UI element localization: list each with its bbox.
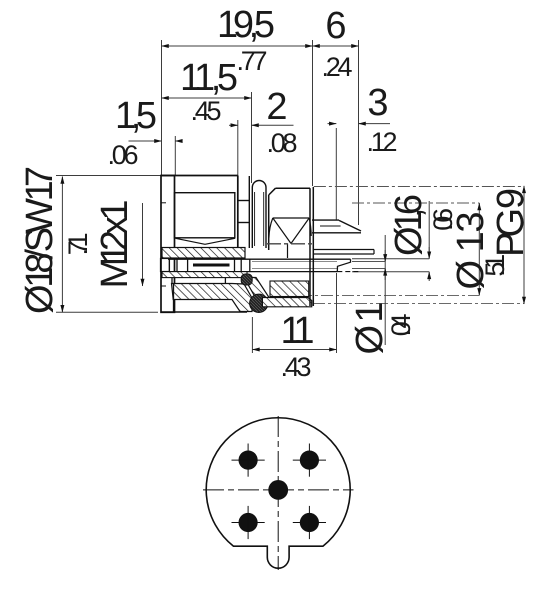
- contact left cap: [161, 259, 170, 272]
- nut top edge: [161, 175, 238, 177]
- panel nut hatch band: [262, 298, 311, 307]
- hex lower hatch: [270, 281, 309, 297]
- pin 2: [293, 444, 326, 477]
- dim line dia1: [384, 235, 386, 345]
- svg-text:3: 3: [367, 82, 388, 124]
- cavity V chamfer right: [205, 238, 235, 244]
- svg-text:M12 x 1: M12 x 1: [94, 200, 136, 289]
- dim line 1.5 outside arrows: [129, 140, 162, 142]
- pin 1: [232, 444, 265, 477]
- dim line dia13: [478, 203, 480, 295]
- svg-text:.08: .08: [267, 128, 298, 158]
- svg-text:.12: .12: [367, 127, 398, 157]
- svg-text:6: 6: [325, 5, 346, 47]
- pin 5 center: [268, 480, 288, 500]
- centerline horizontal: [203, 489, 354, 491]
- nut right face: [237, 176, 239, 251]
- lower pin body: [168, 259, 359, 271]
- pin slot black bar: [193, 264, 230, 267]
- svg-text:Ø 18/ SW 17: Ø 18/ SW 17: [19, 166, 61, 314]
- svg-text:2: 2: [266, 86, 287, 128]
- insert hatch bottom: [162, 272, 247, 278]
- pin 3: [232, 506, 265, 539]
- pin mid line: [252, 260, 337, 262]
- extension line step 1.5: [174, 136, 176, 176]
- dim line 2 outside arrows: [229, 124, 238, 126]
- svg-text:.45: .45: [191, 96, 222, 126]
- dim line 6: [313, 45, 359, 47]
- flange bottom edge: [161, 311, 247, 313]
- hex chamfer arcs: [269, 218, 311, 258]
- leader M12x1: [142, 203, 144, 286]
- ext lines dia18: [56, 175, 161, 177]
- svg-text:.71: .71: [63, 233, 93, 256]
- outer contour: [206, 418, 350, 568]
- svg-text:11: 11: [281, 310, 315, 352]
- cup tip: [337, 259, 350, 271]
- upper solder cup: [312, 220, 361, 233]
- dim line dia18: [61, 177, 63, 313]
- svg-text:11,5: 11,5: [180, 57, 238, 99]
- svg-text:.06: .06: [108, 140, 139, 170]
- dim line 19.5: [162, 45, 313, 47]
- ext lines 11: [251, 317, 253, 353]
- svg-text:1,5: 1,5: [115, 95, 157, 137]
- centerline axis dashes: [267, 243, 315, 245]
- center contact cup: [314, 250, 374, 255]
- insert hatch top: [162, 248, 245, 259]
- ext lines dia13: [352, 202, 479, 204]
- svg-text:PG 9: PG 9: [490, 188, 532, 257]
- diagonal seal piece: [244, 278, 272, 303]
- seal column inner walls: [254, 192, 256, 246]
- extension line front face: [161, 40, 163, 175]
- seal column rounded top: [252, 181, 266, 249]
- knurl column: [238, 176, 250, 248]
- extension line nut right: [237, 120, 239, 176]
- flange hatch band: [172, 284, 253, 312]
- dim line dia1.6: [428, 201, 430, 252]
- cavity V chamfer left: [176, 238, 206, 244]
- dim line 11: [252, 349, 336, 351]
- flange left face: [173, 284, 175, 313]
- rim thread notch bottom: [161, 285, 166, 287]
- o-ring small: [241, 274, 252, 285]
- dim line 3 outside arrows: [328, 123, 337, 125]
- ext lines PG9: [314, 186, 524, 188]
- hidden edge dashed: [337, 271, 358, 273]
- svg-text:.24: .24: [322, 52, 353, 82]
- nut cavity top: [175, 193, 236, 245]
- svg-text:19,5: 19,5: [217, 4, 275, 46]
- ext lines dia1.6: [352, 258, 429, 260]
- hex right face double: [310, 187, 313, 306]
- svg-text:Ø 1: Ø 1: [349, 302, 391, 355]
- extension line rear face: [358, 40, 360, 225]
- hex body: [269, 188, 310, 250]
- svg-text:Ø 1,6: Ø 1,6: [388, 194, 430, 256]
- svg-text:.77: .77: [237, 46, 268, 76]
- lower cavity band: [172, 278, 225, 284]
- centerline vertical: [277, 416, 279, 570]
- pin 4: [293, 506, 326, 539]
- extension line shoulder 11.5: [251, 92, 253, 183]
- extension line cup depth: [335, 128, 337, 220]
- svg-text:.04: .04: [386, 314, 416, 337]
- svg-text:.43: .43: [281, 352, 312, 382]
- dim line PG9: [523, 186, 525, 304]
- rim thread notch top: [161, 202, 166, 204]
- extension line body right: [312, 40, 314, 186]
- dim line 11.5: [162, 97, 252, 99]
- o-ring large: [250, 294, 268, 312]
- coupling nut front rim: [161, 176, 175, 313]
